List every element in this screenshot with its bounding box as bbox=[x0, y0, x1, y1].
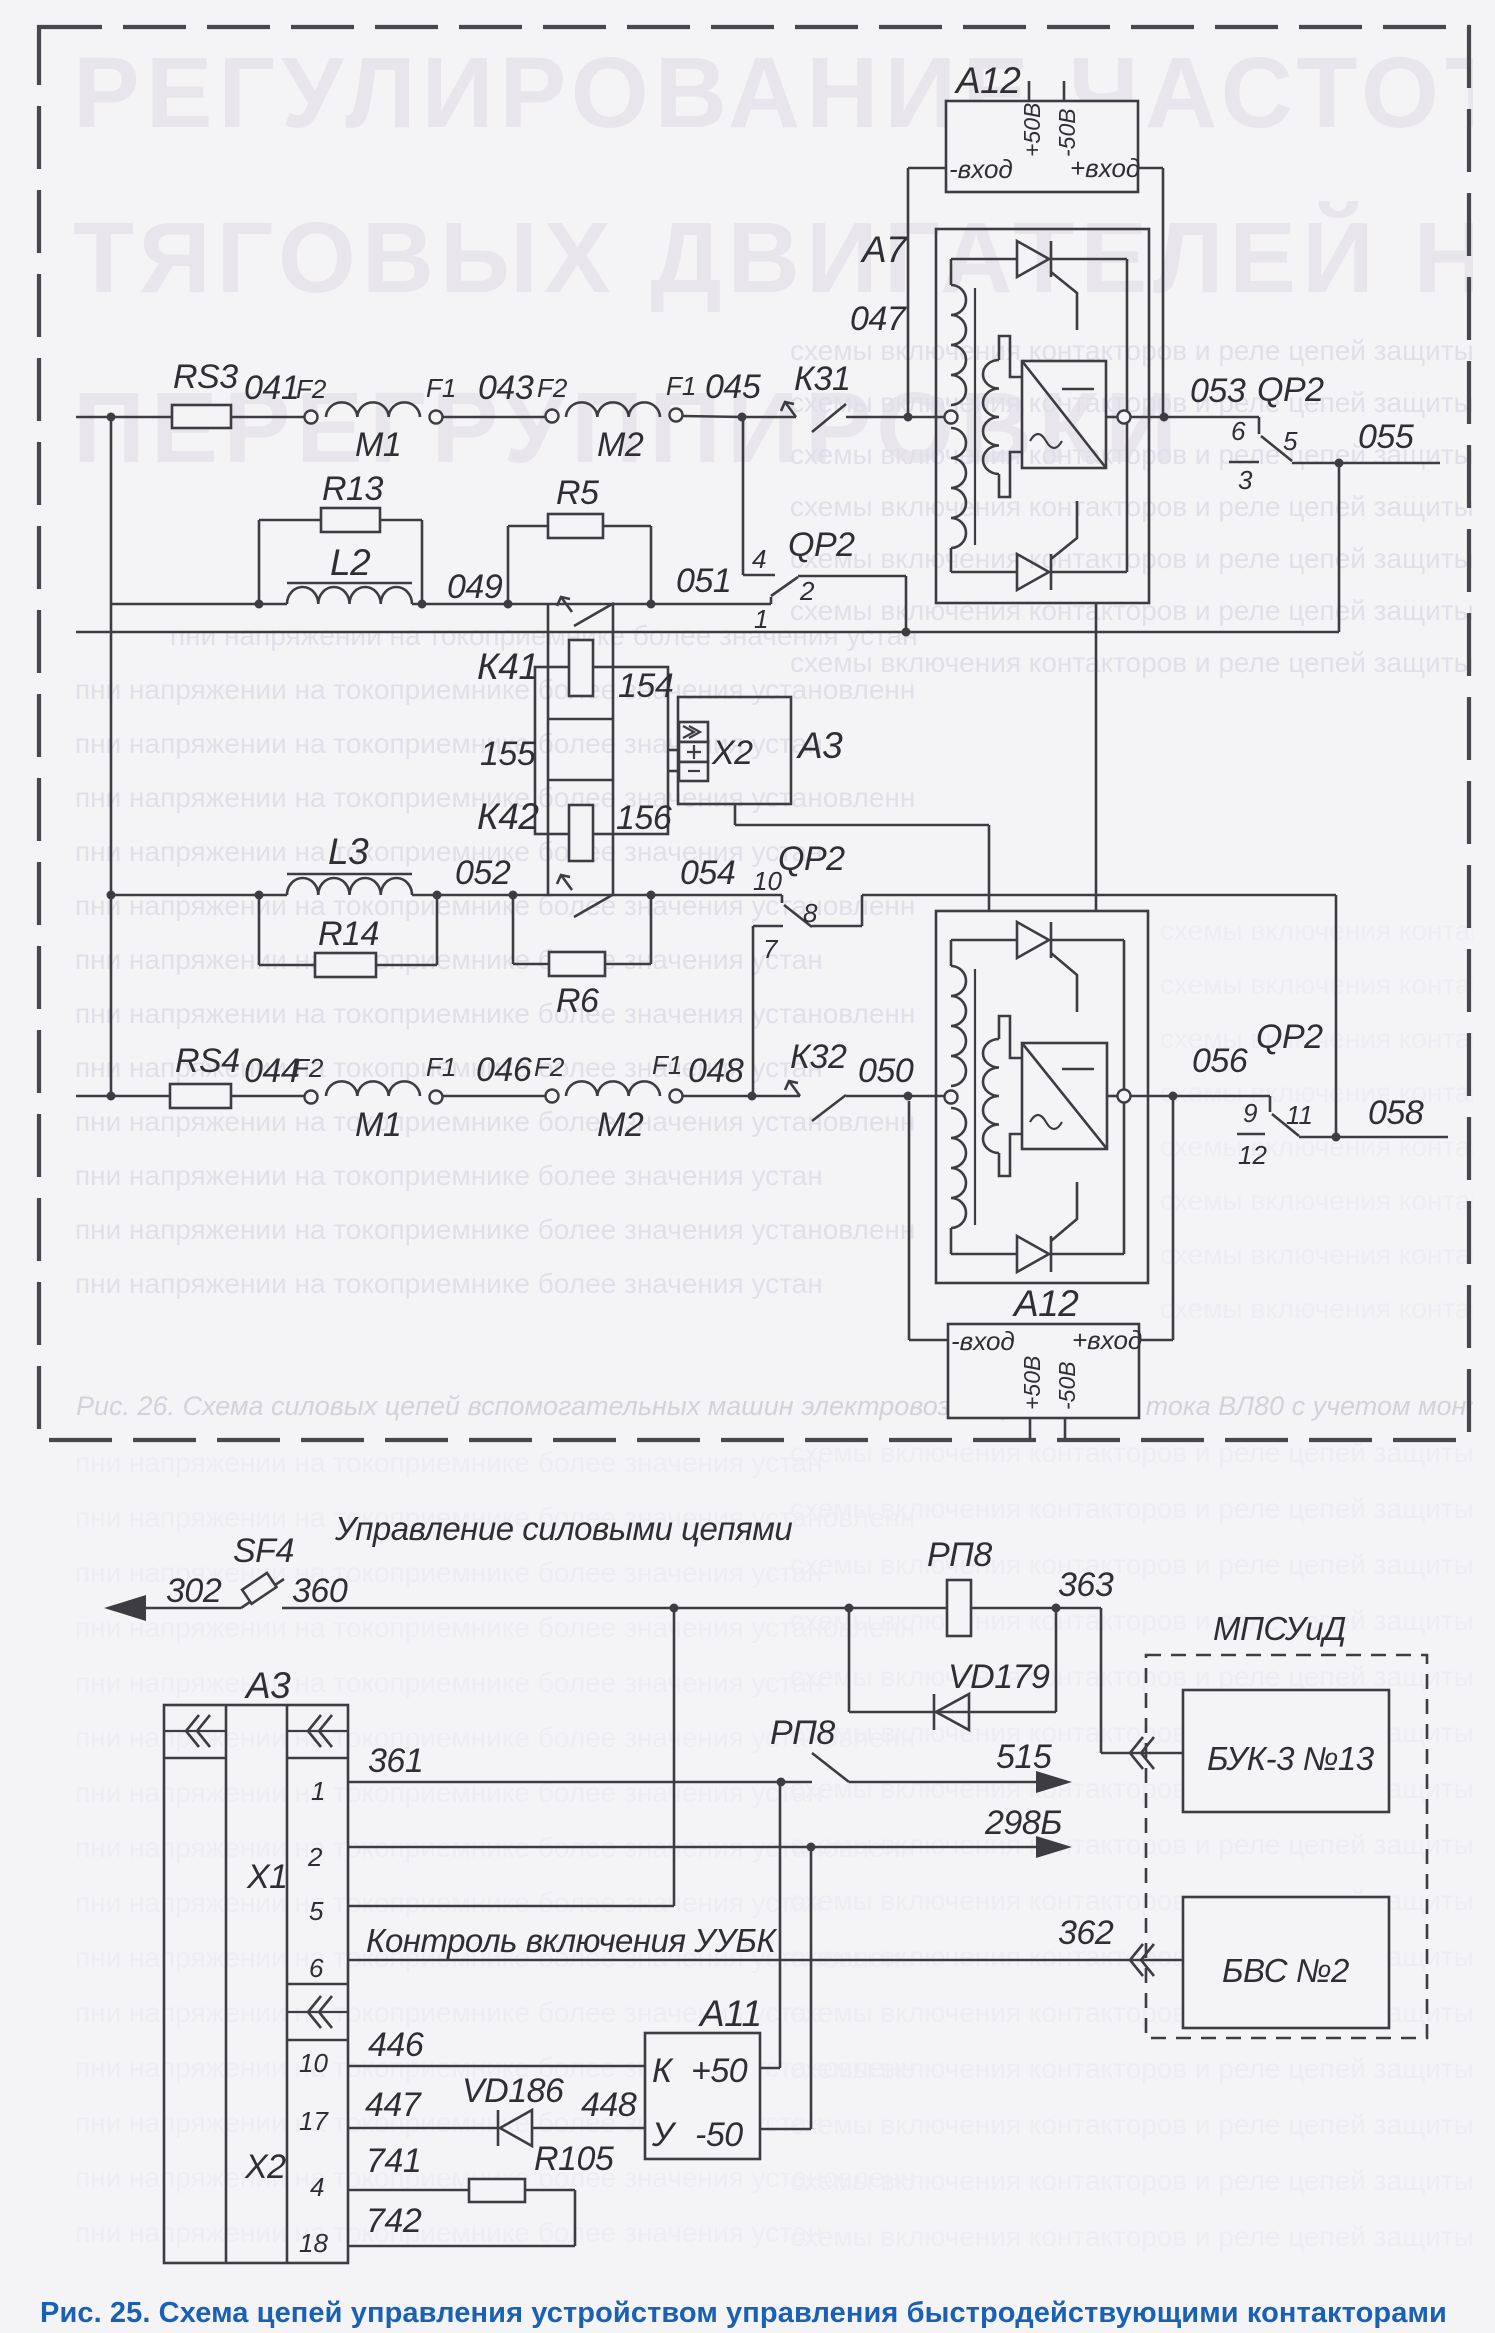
svg-text:схемы включения контакто: схемы включения контакто bbox=[1160, 1293, 1495, 1324]
svg-text:048: 048 bbox=[688, 1052, 744, 1090]
svg-text:4: 4 bbox=[310, 2172, 324, 2202]
svg-text:F1: F1 bbox=[426, 373, 456, 403]
wire A11 +50 to 515 line bbox=[760, 2067, 780, 2070]
svg-text:055: 055 bbox=[1358, 418, 1414, 456]
diode VD179 bbox=[933, 1694, 936, 1730]
svg-text:SF4: SF4 bbox=[233, 1532, 294, 1570]
block A7 outer box bbox=[936, 229, 1149, 603]
svg-text:схемы включения контакторов и: схемы включения контакторов и реле цепей… bbox=[790, 1661, 1495, 1692]
svg-text:схемы включения контакторов и: схемы включения контакторов и реле цепей… bbox=[790, 647, 1495, 678]
junction R14 right bbox=[433, 891, 442, 900]
svg-text:Контроль включения УУБК: Контроль включения УУБК bbox=[366, 1922, 777, 1959]
svg-text:045: 045 bbox=[705, 368, 761, 406]
contactor contact K42 bbox=[561, 875, 572, 890]
svg-text:РП8: РП8 bbox=[770, 1714, 835, 1752]
diode VD179 bypass loop bbox=[848, 1608, 851, 1712]
rectifier unit (A7) bbox=[1022, 361, 1106, 468]
wire node 052 bbox=[412, 894, 513, 897]
svg-text:043: 043 bbox=[478, 369, 534, 407]
wire A12 +vhod to node 053 bbox=[1138, 167, 1163, 170]
svg-text:154: 154 bbox=[618, 667, 673, 705]
terminal F2 bbox=[546, 410, 559, 423]
junction 045 bbox=[738, 413, 747, 422]
svg-text:пни напряжении на токоприемник: пни напряжении на токоприемнике более зн… bbox=[75, 1160, 823, 1191]
svg-text:А12: А12 bbox=[1012, 1283, 1079, 1324]
svg-text:схемы включения контакторов и: схемы включения контакторов и реле цепей… bbox=[790, 1549, 1495, 1580]
node 046 bbox=[443, 1095, 545, 1098]
wire 051 to QP2 bbox=[651, 603, 771, 606]
svg-text:R6: R6 bbox=[556, 982, 599, 1020]
svg-text:8: 8 bbox=[803, 898, 818, 928]
junction 051 bbox=[647, 600, 656, 609]
svg-text:044: 044 bbox=[244, 1052, 299, 1090]
svg-text:+50В: +50В bbox=[1019, 1356, 1045, 1410]
transformer secondary winding (A7) bbox=[983, 360, 999, 474]
svg-text:12: 12 bbox=[1238, 1140, 1267, 1170]
svg-text:F1: F1 bbox=[652, 1050, 682, 1080]
svg-text:446: 446 bbox=[368, 2026, 424, 2064]
svg-text:515: 515 bbox=[996, 1738, 1052, 1776]
svg-text:схемы включения контакто: схемы включения контакто bbox=[1160, 1239, 1495, 1270]
wire 054 across to 058 drop bbox=[862, 894, 1336, 897]
svg-text:пни напряжении на токоприемник: пни напряжении на токоприемнике более зн… bbox=[75, 998, 915, 1029]
A7 inner unit box bbox=[951, 258, 1017, 261]
resistor R6 parallel to K42 bbox=[512, 895, 515, 964]
svg-text:схемы включения контакторов и: схемы включения контакторов и реле цепей… bbox=[790, 2165, 1495, 2196]
svg-text:R13: R13 bbox=[322, 470, 383, 508]
svg-text:10: 10 bbox=[299, 2048, 328, 2078]
X2 stub + bbox=[668, 749, 679, 752]
wire 044 main line bbox=[76, 1095, 170, 1098]
thyristor (top, A7) bbox=[1017, 241, 1049, 277]
svg-text:5: 5 bbox=[1283, 426, 1298, 456]
svg-text:053: 053 bbox=[1190, 372, 1246, 410]
wire 041 main top line bbox=[76, 416, 172, 419]
block A12 (bottom) bbox=[948, 1324, 1139, 1418]
connector chevron X2 bbox=[287, 2011, 348, 2013]
motor winding M1 (lower) bbox=[326, 1081, 420, 1096]
svg-text:4: 4 bbox=[752, 544, 766, 574]
svg-text:056: 056 bbox=[1192, 1042, 1248, 1080]
contactor K41/K42 frame verticals bbox=[547, 604, 550, 667]
svg-text:6: 6 bbox=[309, 1953, 324, 1983]
svg-text:L3: L3 bbox=[328, 831, 369, 872]
circuit breaker SF4 bbox=[241, 1579, 284, 1608]
junction L3 left bbox=[255, 891, 264, 900]
svg-text:М1: М1 bbox=[355, 1106, 401, 1144]
svg-text:2: 2 bbox=[799, 576, 815, 606]
svg-text:пни напряжении на токоприемник: пни напряжении на токоприемнике более зн… bbox=[75, 1447, 823, 1478]
svg-text:схемы включения контакторов и: схемы включения контакторов и реле цепей… bbox=[790, 595, 1495, 626]
node 048 bbox=[683, 1095, 800, 1098]
transformer core (A7) bbox=[974, 288, 976, 545]
wire 362 (pin6) to BVS bbox=[348, 1959, 1183, 1962]
wire 055 return down bbox=[1338, 463, 1341, 632]
svg-text:БУК-3 №13: БУК-3 №13 bbox=[1207, 1740, 1375, 1777]
junction 052 bbox=[509, 891, 518, 900]
svg-text:пни напряжении на токоприемник: пни напряжении на токоприемнике более зн… bbox=[75, 1887, 823, 1918]
svg-text:А11: А11 bbox=[698, 1993, 762, 2034]
coil K41 bbox=[547, 667, 550, 719]
svg-text:VD186: VD186 bbox=[462, 2072, 564, 2110]
svg-text:QP2: QP2 bbox=[1256, 1018, 1323, 1056]
diode VD186 bbox=[497, 2110, 500, 2146]
A8 inner unit box bbox=[951, 939, 1017, 942]
svg-text:-50В: -50В bbox=[1054, 1361, 1080, 1410]
contactor contact K41 bbox=[561, 597, 572, 612]
svg-text:7: 7 bbox=[763, 934, 779, 964]
svg-text:К: К bbox=[652, 2052, 674, 2090]
left rail down bbox=[110, 604, 113, 1096]
motor winding M1 bbox=[326, 402, 420, 417]
svg-text:QP2: QP2 bbox=[778, 840, 845, 878]
svg-text:+50В: +50В bbox=[1019, 103, 1045, 157]
coil K42 bbox=[548, 779, 613, 782]
svg-text:VD179: VD179 bbox=[948, 1658, 1050, 1696]
svg-text:А12: А12 bbox=[954, 60, 1021, 101]
svg-text:3: 3 bbox=[1238, 465, 1253, 495]
wire 055 bbox=[1292, 462, 1440, 465]
svg-text:-50: -50 bbox=[695, 2116, 743, 2154]
svg-text:схемы включения контакторов и: схемы включения контакторов и реле цепей… bbox=[790, 2109, 1495, 2140]
svg-text:ТЯГОВЫХ ДВИГАТЕЛЕЙ НА РЕЖ: ТЯГОВЫХ ДВИГАТЕЛЕЙ НА РЕЖ bbox=[73, 201, 1495, 314]
svg-text:+вход: +вход bbox=[1072, 1325, 1142, 1355]
svg-text:К42: К42 bbox=[477, 796, 539, 837]
junction 054 bbox=[647, 891, 656, 900]
svg-text:302: 302 bbox=[166, 1572, 222, 1610]
svg-text:058: 058 bbox=[1368, 1094, 1424, 1132]
svg-text:047: 047 bbox=[850, 300, 907, 338]
wire A12 +vhod to node 056 bbox=[1139, 1339, 1173, 1342]
svg-text:пни напряжении на токоприемник: пни напряжении на токоприемнике более зн… bbox=[75, 944, 823, 975]
wire 053 bbox=[1131, 416, 1259, 419]
+50V tick (bottom A12) bbox=[1029, 1418, 1032, 1439]
svg-text:А3: А3 bbox=[796, 725, 843, 766]
block A11 bbox=[645, 2033, 760, 2159]
svg-text:М2: М2 bbox=[597, 426, 644, 464]
wire 052-054 through K42 bbox=[513, 894, 651, 897]
block MPSUiD dashed frame bbox=[1146, 1655, 1427, 2038]
svg-text:схемы включения контакто: схемы включения контакто bbox=[1160, 915, 1495, 946]
svg-text:F2: F2 bbox=[534, 1052, 565, 1082]
rectifier unit (A8) bbox=[1022, 1043, 1107, 1149]
connector chevron cell dividers bbox=[164, 1757, 226, 1760]
wire 047 to A7 bbox=[846, 416, 944, 419]
junction L2 right bbox=[418, 600, 427, 609]
output wire and terminal 056 (A8) bbox=[1107, 1095, 1117, 1098]
X2 stub - bbox=[668, 770, 679, 773]
svg-text:051: 051 bbox=[676, 562, 731, 600]
resistor R13 parallel branch bbox=[258, 520, 261, 604]
svg-text:У: У bbox=[651, 2116, 677, 2154]
svg-text:360: 360 bbox=[292, 1572, 348, 1610]
svg-text:R5: R5 bbox=[556, 474, 599, 512]
svg-text:-вход: -вход bbox=[951, 1326, 1015, 1356]
svg-text:схемы включения контакторов и: схемы включения контакторов и реле цепей… bbox=[790, 335, 1495, 366]
thyristor (top, A8) bbox=[1017, 922, 1049, 958]
wire A12 -vhod to node 047 bbox=[908, 167, 946, 170]
junction 049 bbox=[504, 600, 513, 609]
svg-text:X1: X1 bbox=[246, 1858, 288, 1896]
connector X2 contacts bbox=[679, 722, 708, 742]
junction 360/pin5 bbox=[670, 1604, 679, 1613]
junction 050 bbox=[904, 1092, 913, 1101]
terminal F1 bbox=[670, 1090, 683, 1103]
thyristor (bottom, A7) bbox=[1017, 554, 1049, 590]
svg-text:11: 11 bbox=[1286, 1100, 1313, 1130]
wire 302 bbox=[146, 1607, 241, 1610]
svg-text:МПСУиД: МПСУиД bbox=[1213, 1610, 1346, 1647]
svg-text:10: 10 bbox=[753, 866, 782, 896]
contactor unit box 154-156 bbox=[535, 667, 668, 834]
wire L2 line bbox=[111, 603, 287, 606]
block A3 (X2 connector) bbox=[678, 697, 791, 804]
svg-text:F2: F2 bbox=[293, 1053, 324, 1083]
svg-text:17: 17 bbox=[299, 2106, 329, 2136]
junction VD179 left bbox=[845, 1604, 854, 1613]
svg-text:1: 1 bbox=[754, 604, 768, 634]
svg-text:6: 6 bbox=[1231, 416, 1246, 446]
svg-text:L2: L2 bbox=[330, 542, 371, 583]
junction +50 riser bbox=[777, 1778, 786, 1787]
return wire (bottom of top circuit) bbox=[76, 631, 1339, 634]
-50V tick (top A12) bbox=[1063, 81, 1066, 100]
transformer primary winding (A8) bbox=[951, 966, 966, 1086]
svg-text:F2: F2 bbox=[537, 373, 568, 403]
svg-text:F1: F1 bbox=[426, 1052, 456, 1082]
block BVS No2 bbox=[1183, 1897, 1389, 2028]
svg-text:18: 18 bbox=[299, 2228, 328, 2258]
wire 742 (pin18) bbox=[348, 2245, 575, 2248]
disconnector QP2 contacts 4-2-1 bbox=[742, 417, 745, 575]
wire to K31 bbox=[742, 416, 796, 419]
svg-text:пни напряжении на токоприемник: пни напряжении на токоприемнике более зн… bbox=[75, 1106, 915, 1137]
svg-text:F1: F1 bbox=[666, 371, 696, 401]
wire node 049 bbox=[412, 603, 508, 606]
block A8 outer box bbox=[936, 911, 1148, 1283]
wire 447 (pin17) bbox=[348, 2127, 498, 2130]
wire 056 bbox=[1131, 1095, 1270, 1098]
wire L3 line bbox=[111, 894, 287, 897]
svg-text:-50В: -50В bbox=[1054, 108, 1080, 157]
wire A7 bottom to A8 bbox=[1095, 603, 1098, 911]
svg-text:Управление силовыми цепями: Управление силовыми цепями bbox=[334, 1510, 792, 1547]
svg-text:R105: R105 bbox=[534, 2140, 614, 2178]
junction L2 left bbox=[255, 600, 264, 609]
svg-text:155: 155 bbox=[480, 735, 536, 773]
svg-text:RS4: RS4 bbox=[175, 1042, 240, 1080]
terminal F2 bbox=[305, 1091, 318, 1104]
block A12 (top) bbox=[946, 101, 1138, 192]
contactor contact K31 bbox=[785, 402, 796, 417]
wire A12 -vhod to node 050 bbox=[909, 1339, 948, 1342]
thyristor (bottom, A8) bbox=[1017, 1236, 1049, 1272]
svg-text:А3: А3 bbox=[244, 1665, 291, 1706]
svg-text:9: 9 bbox=[1243, 1098, 1257, 1128]
svg-text:пни напряжении на токоприемник: пни напряжении на токоприемнике более зн… bbox=[75, 1667, 823, 1698]
terminal F2 bbox=[546, 1090, 559, 1103]
svg-text:363: 363 bbox=[1058, 1566, 1114, 1604]
junction -50 riser bbox=[807, 1843, 816, 1852]
wire pin5 to 360 bbox=[348, 1905, 674, 1908]
shunt RS4 bbox=[170, 1084, 231, 1108]
connector chevron X1 left bbox=[164, 1730, 226, 1732]
terminal F1 bbox=[430, 1091, 443, 1104]
svg-text:К32: К32 bbox=[790, 1038, 847, 1076]
svg-text:447: 447 bbox=[365, 2086, 422, 2124]
motor winding M2 bbox=[566, 402, 660, 417]
svg-text:+50: +50 bbox=[691, 2052, 748, 2090]
svg-text:049: 049 bbox=[447, 568, 503, 606]
junction 047 bbox=[904, 413, 913, 422]
transformer secondary winding (A8) bbox=[983, 1039, 999, 1153]
junction 041 branch bbox=[107, 413, 116, 422]
node 044 bbox=[231, 1095, 304, 1098]
wire 361 (pin1) to RP8 contact bbox=[348, 1781, 812, 1784]
svg-text:F2: F2 bbox=[296, 374, 327, 404]
dashed frame border bbox=[39, 27, 1469, 1440]
svg-text:Рис. 26. Схема силовых цепей в: Рис. 26. Схема силовых цепей вспомогател… bbox=[76, 1391, 1495, 1421]
junction on return line bbox=[902, 628, 911, 637]
svg-text:схемы включения контакто: схемы включения контакто bbox=[1160, 969, 1495, 1000]
wire 050 to A8 bbox=[846, 1095, 944, 1098]
svg-text:362: 362 bbox=[1058, 1914, 1114, 1952]
wire 054 to QP2 bbox=[651, 894, 782, 897]
svg-text:156: 156 bbox=[616, 799, 672, 837]
wire 054 corner down to 058 bbox=[1335, 895, 1338, 1137]
terminal F1 bbox=[430, 411, 443, 424]
svg-text:М2: М2 bbox=[597, 1106, 644, 1144]
wire A3 to A8 bbox=[734, 804, 737, 825]
svg-text:схемы включения контакторов и: схемы включения контакторов и реле цепей… bbox=[790, 1493, 1495, 1524]
svg-text:К31: К31 bbox=[794, 360, 850, 398]
svg-text:2: 2 bbox=[307, 1842, 323, 1872]
reactor L3 bbox=[287, 873, 412, 876]
node 041 bbox=[231, 416, 304, 419]
wire R105 to pin18 bbox=[525, 2189, 575, 2192]
svg-text:X2: X2 bbox=[711, 734, 753, 772]
terminal F2 bbox=[305, 411, 318, 424]
svg-text:схемы включения контакторов и: схемы включения контакторов и реле цепей… bbox=[790, 1829, 1495, 1860]
svg-text:А7: А7 bbox=[860, 229, 908, 270]
svg-text:054: 054 bbox=[680, 854, 735, 892]
svg-text:046: 046 bbox=[476, 1051, 532, 1089]
connector chevron X1 right bbox=[287, 1730, 348, 1732]
svg-text:-вход: -вход bbox=[949, 154, 1013, 184]
wire 741 (pin4) bbox=[348, 2189, 469, 2192]
-50V tick (bottom A12) bbox=[1064, 1418, 1067, 1439]
svg-text:050: 050 bbox=[858, 1052, 914, 1090]
svg-text:RS3: RS3 bbox=[173, 358, 238, 396]
resistor R105 bbox=[469, 2179, 525, 2202]
svg-text:БВС №2: БВС №2 bbox=[1222, 1952, 1349, 1989]
svg-text:R14: R14 bbox=[318, 915, 379, 953]
svg-text:Рис. 25. Схема цепей управлени: Рис. 25. Схема цепей управления устройст… bbox=[40, 2297, 1447, 2329]
output wire and terminal 053 (A7) bbox=[1106, 416, 1117, 419]
wire 360 bbox=[282, 1607, 1101, 1610]
wire QP2-2 to return line bbox=[798, 575, 906, 578]
svg-text:схемы включения контакто: схемы включения контакто bbox=[1160, 1131, 1495, 1162]
connector chevron (BVS) bbox=[1130, 1944, 1143, 1976]
disconnector QP2 contacts 6-5-3 bbox=[1258, 417, 1261, 434]
svg-text:361: 361 bbox=[368, 1742, 423, 1780]
svg-text:схемы включения контакторов и: схемы включения контакторов и реле цепей… bbox=[790, 2221, 1495, 2252]
junction 053 bbox=[1160, 413, 1169, 422]
wire 363 down to BUK-3 bbox=[1100, 1608, 1103, 1753]
junction 056 bbox=[1169, 1092, 1178, 1101]
svg-text:схемы включения контакторов и: схемы включения контакторов и реле цепей… bbox=[790, 491, 1495, 522]
reactor L2 bbox=[287, 582, 412, 585]
svg-text:схемы включения контакторов и: схемы включения контакторов и реле цепей… bbox=[790, 2053, 1495, 2084]
junction 363 bbox=[1052, 1604, 1061, 1613]
svg-text:298Б: 298Б bbox=[984, 1804, 1062, 1842]
svg-text:741: 741 bbox=[366, 2142, 421, 2180]
svg-text:схемы включения контакто: схемы включения контакто bbox=[1160, 1185, 1495, 1216]
svg-text:041: 041 bbox=[244, 369, 299, 407]
block BUK-3 No13 bbox=[1183, 1690, 1389, 1812]
node 043 bbox=[443, 416, 545, 419]
arrow 302 (to power circuits) bbox=[104, 1595, 146, 1621]
wire 515 with arrow bbox=[849, 1781, 1036, 1784]
svg-text:+вход: +вход bbox=[1070, 153, 1140, 183]
svg-text:QP2: QP2 bbox=[1257, 371, 1324, 409]
resistor R5 parallel to K41 bbox=[507, 526, 510, 604]
svg-text:пни напряжении на токоприемник: пни напряжении на токоприемнике более зн… bbox=[75, 728, 823, 759]
node 045 bbox=[683, 416, 742, 417]
svg-text:схемы включения контакто: схемы включения контакто bbox=[1160, 1077, 1495, 1108]
svg-text:742: 742 bbox=[366, 2202, 422, 2240]
disconnector QP2 contacts 9-11-12 bbox=[1269, 1096, 1272, 1112]
junction 055 bbox=[1335, 459, 1344, 468]
motor winding M2 (lower) bbox=[566, 1081, 660, 1096]
contactor contact K32 bbox=[789, 1081, 800, 1096]
svg-text:схемы включения контакторов и: схемы включения контакторов и реле цепей… bbox=[790, 1605, 1495, 1636]
wire from 041 down to L2 branch bbox=[110, 417, 113, 604]
input terminal 050 (A8) bbox=[945, 1091, 958, 1104]
svg-text:QP2: QP2 bbox=[788, 526, 855, 564]
resistor R14 parallel branch bbox=[258, 895, 261, 965]
terminal F1 bbox=[670, 409, 683, 422]
QP2 contact 7 to wire 048 bbox=[753, 925, 783, 928]
wire 446 (pin10) to A11 bbox=[348, 2065, 645, 2068]
junction 058 bbox=[1332, 1133, 1341, 1142]
svg-text:РЕГУЛИРОВАНИЕ ЧАСТОТЫ: РЕГУЛИРОВАНИЕ ЧАСТОТЫ bbox=[73, 37, 1495, 149]
svg-text:448: 448 bbox=[581, 2086, 637, 2124]
wire 049-051 through K41 bbox=[508, 603, 651, 606]
svg-text:пни напряжении на токоприемник: пни напряжении на токоприемнике более зн… bbox=[75, 2217, 823, 2248]
svg-text:пни напряжении на токоприемник: пни напряжении на токоприемнике более зн… bbox=[75, 1268, 823, 1299]
svg-text:5: 5 bbox=[309, 1896, 324, 1926]
svg-text:052: 052 bbox=[455, 854, 511, 892]
shunt RS3 bbox=[172, 405, 231, 428]
junction pin7 bbox=[748, 1092, 757, 1101]
svg-text:К41: К41 bbox=[477, 646, 538, 687]
transformer core (A8) bbox=[974, 969, 976, 1225]
svg-text:схемы включения контакторов и: схемы включения контакторов и реле цепей… bbox=[790, 543, 1495, 574]
svg-text:пни напряжении на токоприемник: пни напряжении на токоприемнике более зн… bbox=[75, 1214, 915, 1245]
page margins bbox=[0, 0, 36, 2333]
svg-text:М1: М1 bbox=[355, 426, 401, 464]
svg-text:1: 1 bbox=[311, 1776, 325, 1806]
transformer primary winding (A7) bbox=[951, 285, 966, 405]
svg-text:РП8: РП8 bbox=[927, 1536, 992, 1574]
wire A11 -50 to 298B line bbox=[760, 2128, 811, 2131]
svg-text:схемы включения контакторов и: схемы включения контакторов и реле цепей… bbox=[790, 387, 1495, 418]
wire 058 bbox=[1299, 1136, 1448, 1139]
junction RS4 bbox=[107, 1092, 116, 1101]
wire 448 to A11 bbox=[532, 2127, 645, 2130]
svg-text:X2: X2 bbox=[244, 2148, 286, 2186]
